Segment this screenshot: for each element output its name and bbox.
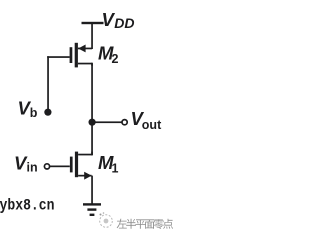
watermark text 左半平面零点 (117, 219, 173, 229)
ground (83, 203, 101, 216)
svg-text:ybx8.cn: ybx8.cn (0, 197, 55, 215)
transistor M1 (70, 152, 93, 180)
wire rail M2 drain to M1 drain (91, 64, 93, 156)
svg-text:1: 1 (112, 161, 119, 175)
wire M1 source to ground (91, 176, 93, 204)
wire Vout stub (92, 121, 122, 123)
wire M2 gate to Vb node (47, 56, 69, 112)
node Vb (44, 109, 51, 116)
svg-text:2: 2 (112, 52, 119, 66)
wire Vin to M1 gate (50, 166, 70, 168)
transistor M2 (70, 43, 93, 68)
terminal Vin (44, 164, 49, 169)
terminal Vout (122, 120, 127, 125)
power VDD (82, 22, 104, 49)
svg-text:out: out (142, 118, 162, 132)
svg-text:b: b (30, 106, 38, 120)
watermark logo (100, 212, 113, 227)
node Vout junction (89, 119, 96, 126)
svg-text:in: in (27, 161, 38, 175)
svg-text:DD: DD (114, 15, 134, 31)
